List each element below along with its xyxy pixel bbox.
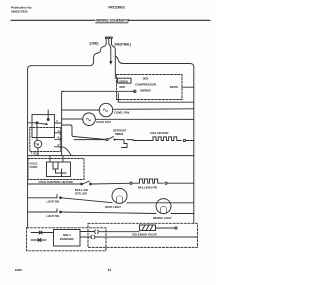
svg-text:TM: TM bbox=[35, 142, 40, 146]
defrost rung bbox=[74, 139, 106, 141]
timer switch arm bbox=[37, 123, 48, 125]
svg-text:EVAP. FAN: EVAP. FAN bbox=[97, 120, 111, 124]
svg-text:WIRING: WIRING bbox=[140, 89, 151, 93]
label defrost timer bbox=[113, 129, 127, 137]
freezer light rung bbox=[28, 197, 58, 199]
svg-text:COIL HEATER: COIL HEATER bbox=[150, 131, 169, 135]
solenoid coil bbox=[140, 225, 156, 231]
label mull sw htr sw bbox=[75, 188, 88, 196]
optional valve dashed box bbox=[88, 223, 198, 247]
condenser fan motor bbox=[99, 103, 112, 116]
cold control switch bbox=[49, 156, 51, 162]
cold control dashed box bbox=[28, 159, 84, 180]
mull switch contact bbox=[81, 183, 83, 185]
refrig light switch bbox=[56, 209, 58, 212]
defrost heater terminal bbox=[183, 139, 185, 141]
svg-text:E299: E299 bbox=[15, 268, 22, 272]
label cold cont bbox=[30, 161, 39, 169]
mullion heater terminal right bbox=[165, 182, 167, 184]
wire cond fan rung bbox=[62, 109, 100, 111]
plug prong N bbox=[111, 39, 113, 44]
compressor dashed box bbox=[117, 75, 183, 100]
t yel rung bbox=[28, 155, 194, 157]
svg-text:COMPRESSOR: COMPRESSOR bbox=[135, 83, 157, 87]
svg-text:5995317830: 5995317830 bbox=[11, 10, 28, 14]
defrost heater element bbox=[133, 137, 181, 141]
svg-text:REFRIG. LIGHT: REFRIG. LIGHT bbox=[153, 216, 172, 220]
svg-text:TIMER: TIMER bbox=[115, 132, 125, 136]
timer dashed box bbox=[30, 128, 61, 152]
see compressor wiring text bbox=[135, 77, 157, 93]
publication number text bbox=[11, 6, 33, 14]
wire compressor bottom bbox=[118, 93, 194, 102]
wire line side bbox=[31, 44, 106, 66]
svg-text:SEE: SEE bbox=[143, 77, 149, 81]
svg-text:14: 14 bbox=[108, 268, 112, 272]
connector bbox=[95, 230, 99, 234]
lower wire in box bbox=[80, 236, 91, 238]
plug prong L1 bbox=[105, 39, 107, 44]
mid vertical bus bbox=[62, 91, 64, 155]
freezer light bulb bbox=[112, 188, 127, 203]
svg-text:MULLION HTR.: MULLION HTR. bbox=[138, 185, 158, 189]
icemaker wire lower left bbox=[31, 239, 46, 241]
refrig light bulb bbox=[156, 199, 171, 214]
svg-text:SOLENOID VALVE: SOLENOID VALVE bbox=[132, 233, 157, 237]
svg-text:FRZR. LIGHT: FRZR. LIGHT bbox=[105, 205, 121, 209]
refrig light rung bbox=[28, 211, 58, 213]
timer stub up bbox=[47, 110, 49, 120]
defrost switch contact bbox=[106, 139, 108, 141]
svg-text:WIRING SCHEMATIC: WIRING SCHEMATIC bbox=[96, 18, 130, 22]
timer contact dots bbox=[36, 122, 38, 124]
plug prong ground bbox=[108, 39, 110, 44]
timer motor TM bbox=[34, 140, 42, 148]
svg-text:T YEL: T YEL bbox=[31, 152, 39, 156]
evaporator fan motor bbox=[83, 113, 96, 126]
red terminal bbox=[134, 90, 136, 92]
mullion switch rung bbox=[28, 183, 81, 185]
svg-text:(LINE): (LINE) bbox=[90, 41, 99, 45]
svg-text:ADD A: ADD A bbox=[63, 233, 71, 237]
icemaker box bbox=[54, 230, 81, 247]
svg-text:FRT22MGC: FRT22MGC bbox=[109, 6, 126, 10]
left bus bbox=[28, 66, 31, 228]
icemaker wire upper left bbox=[31, 232, 54, 234]
right bus bbox=[190, 64, 194, 224]
svg-text:(NEUTRAL): (NEUTRAL) bbox=[115, 42, 132, 46]
wire white to bus bbox=[182, 86, 194, 88]
title underline bbox=[96, 22, 129, 24]
svg-text:CONT.: CONT. bbox=[30, 165, 39, 169]
timer terminal stubs bbox=[54, 123, 61, 147]
svg-text:HTR. SW: HTR. SW bbox=[75, 192, 87, 196]
wire neutral branch bbox=[115, 57, 190, 64]
svg-text:COND. FAN: COND. FAN bbox=[114, 110, 129, 114]
defrost thermostat hook bbox=[115, 140, 128, 148]
svg-text:RED: RED bbox=[120, 85, 126, 89]
terminal labels 3 1 4 2 bbox=[56, 119, 60, 147]
svg-text:WHITE: WHITE bbox=[170, 85, 179, 89]
freezer light switch bbox=[56, 195, 58, 198]
header rule bbox=[11, 19, 95, 21]
svg-text:COLD CONTROL HEATER: COLD CONTROL HEATER bbox=[39, 180, 74, 184]
defrost timer box bbox=[32, 115, 54, 138]
optional icemaker dashed box bbox=[27, 228, 107, 251]
svg-text:GREEN: GREEN bbox=[119, 79, 128, 83]
mullion heater terminal left bbox=[130, 182, 132, 184]
wire red rung bbox=[62, 90, 135, 92]
wire neutral side bbox=[112, 44, 116, 78]
mullion heater element bbox=[132, 179, 163, 183]
wire bus to timer bbox=[28, 122, 37, 124]
svg-text:LIGHT SW.: LIGHT SW. bbox=[47, 214, 60, 218]
timer wire t1 branch bbox=[62, 125, 106, 140]
svg-text:LIGHT SW.: LIGHT SW. bbox=[47, 200, 60, 204]
wire evap fan rung bbox=[62, 118, 83, 120]
green terminal box bbox=[118, 78, 132, 83]
solenoid feed wire bbox=[80, 231, 94, 233]
ground arrow bbox=[109, 44, 111, 61]
svg-text:ICEMAKER: ICEMAKER bbox=[60, 237, 74, 241]
timer wire t2 curve bbox=[62, 147, 73, 156]
